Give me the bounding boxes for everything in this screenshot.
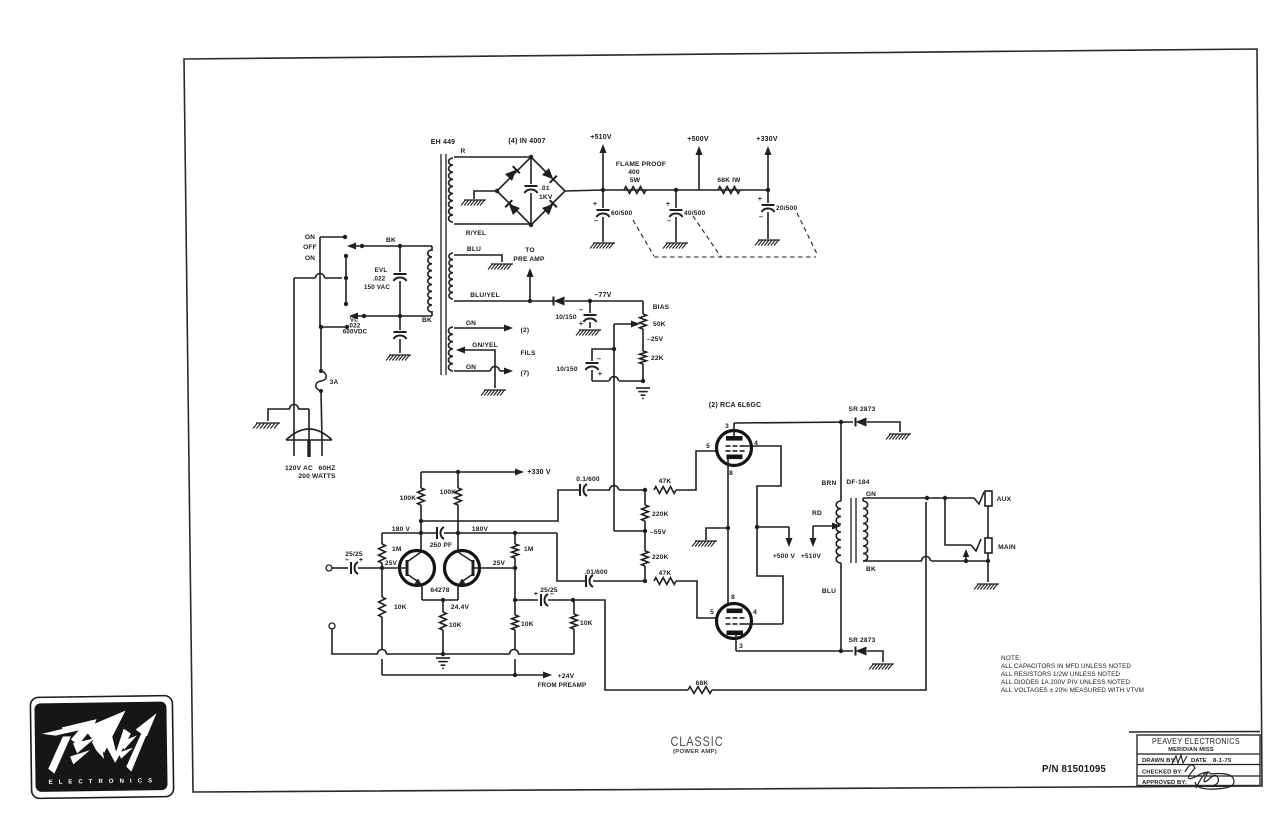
label DF-184 bbox=[846, 479, 869, 486]
label BRN bbox=[822, 480, 837, 487]
svg-text:(2): (2) bbox=[521, 327, 530, 334]
svg-text:1KV: 1KV bbox=[539, 194, 553, 201]
wire: R/YEL winding to bridge bottom bbox=[454, 223, 531, 225]
diode D3 (bridge bottom-left) bbox=[505, 200, 520, 215]
tube V2 cathode bbox=[727, 609, 743, 614]
jack MAIN contact bbox=[971, 539, 981, 551]
svg-text:.022: .022 bbox=[373, 276, 386, 283]
wire: RD center tap bbox=[813, 523, 841, 530]
wire: Q2 base down bbox=[513, 568, 517, 602]
svg-text:GN/YEL: GN/YEL bbox=[472, 342, 498, 349]
svg-text:–25V: –25V bbox=[647, 336, 664, 343]
pin 4 label (V2) bbox=[753, 609, 757, 616]
svg-text:SR 2873: SR 2873 bbox=[848, 406, 875, 413]
label ON (top) bbox=[305, 234, 315, 241]
resistor 10K (emitter) bbox=[440, 600, 447, 656]
svg-text:3A: 3A bbox=[330, 379, 339, 386]
title block row DRAWN BY bbox=[1142, 755, 1232, 764]
svg-text:MERIDIAN MISS: MERIDIAN MISS bbox=[1168, 747, 1214, 753]
svg-text:+: + bbox=[579, 319, 584, 328]
svg-text:ALL DIODES 1A 200V PIV UNLES: ALL DIODES 1A 200V PIV UNLESS NOTED bbox=[1001, 679, 1130, 686]
resistor 1M (Q1) bbox=[379, 533, 386, 568]
label FILS bbox=[520, 350, 535, 357]
diode SR2873 (lower) bbox=[856, 647, 867, 656]
wire: jack sleeve to ground bbox=[987, 553, 989, 582]
svg-text:+: + bbox=[598, 369, 603, 378]
svg-text:+: + bbox=[534, 591, 538, 598]
wire: 10K1 to +24V rail bbox=[381, 617, 383, 675]
label +330V (driver) bbox=[527, 469, 551, 476]
svg-text:DRAWN BY:: DRAWN BY: bbox=[1142, 758, 1176, 764]
label (4) IN 4007 bbox=[508, 138, 545, 145]
wire: Q2 collector to .01 cap bbox=[515, 533, 585, 581]
svg-text:EVL: EVL bbox=[375, 267, 388, 274]
label SR 2873 (upper) bbox=[848, 406, 875, 413]
jack MAIN body bbox=[985, 538, 992, 553]
svg-text:TO: TO bbox=[525, 247, 534, 254]
svg-text:4: 4 bbox=[753, 609, 757, 616]
pin 5 label (V2) bbox=[710, 609, 714, 616]
label (7) bbox=[521, 370, 530, 377]
diode D4 (bridge bottom-right) bbox=[542, 200, 557, 215]
speaker phasing arrow bbox=[963, 549, 970, 561]
svg-text:–: – bbox=[594, 216, 598, 225]
svg-text:+330 V: +330 V bbox=[527, 469, 551, 476]
resistor FLAME PROOF 400 5W bbox=[624, 187, 646, 194]
svg-text:60HZ: 60HZ bbox=[319, 465, 336, 472]
wire: cathode bus bbox=[726, 459, 730, 603]
svg-text:100K: 100K bbox=[440, 489, 457, 496]
svg-text:8: 8 bbox=[731, 594, 735, 601]
label GN (bottom) bbox=[466, 364, 476, 371]
label 10/150 (2) bbox=[556, 354, 602, 378]
capacitor C 10/150 (bias filter 1) bbox=[584, 301, 597, 328]
label BLU bbox=[467, 246, 481, 253]
wire: cathode to ground bbox=[706, 528, 728, 540]
input jack tip terminal bbox=[326, 565, 348, 571]
wire: AUX to MAIN bbox=[987, 506, 989, 538]
svg-text:ALL VOLTAGES ± 20% MEASURED W: ALL VOLTAGES ± 20% MEASURED WITH VTVM bbox=[1001, 687, 1144, 694]
svg-text:DF-184: DF-184 bbox=[846, 479, 869, 486]
Peavey Electronics logo bbox=[30, 696, 173, 799]
svg-text:NOTE:: NOTE: bbox=[1001, 655, 1022, 662]
label 180V (left) bbox=[392, 526, 411, 533]
wire: B+ bus bbox=[601, 188, 770, 192]
svg-text:FROM PREAMP: FROM PREAMP bbox=[538, 682, 587, 689]
wire: bridge + to B+ bus bbox=[565, 190, 603, 191]
wire: V2 pin4 screen bbox=[745, 623, 784, 625]
ground (lower SR2873) bbox=[869, 664, 894, 670]
svg-text:10K: 10K bbox=[449, 622, 462, 629]
label 10K (Q2 base) bbox=[521, 621, 534, 628]
label 25V (right) bbox=[493, 560, 506, 567]
capacitor C 20/500 bbox=[762, 190, 775, 239]
transformer T2 DF-184 primary bbox=[836, 422, 841, 651]
resistor 68K 1W bbox=[718, 187, 740, 194]
svg-text:MAIN: MAIN bbox=[998, 544, 1016, 551]
wire: secondary hot bbox=[863, 496, 974, 501]
svg-text:47K: 47K bbox=[659, 570, 672, 577]
diode bridge (4) IN4007 outline bbox=[495, 155, 565, 227]
svg-text:8-1-75: 8-1-75 bbox=[1213, 758, 1232, 764]
label SR 2873 (lower) bbox=[848, 637, 875, 644]
svg-text:DATE: DATE bbox=[1191, 758, 1207, 764]
capacitor VL .022 600VDC bbox=[394, 316, 407, 353]
svg-text:PRE AMP: PRE AMP bbox=[513, 256, 545, 263]
resistor 47K (lower grid) bbox=[654, 578, 676, 585]
wire: R winding to bridge top bbox=[454, 156, 531, 158]
label EH 449 bbox=[431, 139, 456, 146]
transformer T2 core bbox=[851, 498, 856, 563]
AC plug hot prong bbox=[293, 440, 295, 456]
svg-text:BK: BK bbox=[386, 237, 396, 244]
node +500V rail bbox=[687, 136, 709, 190]
label 50K bbox=[653, 321, 666, 328]
label AUX bbox=[997, 496, 1012, 503]
ground (40/500) bbox=[663, 243, 688, 249]
label 1M (1) bbox=[392, 546, 402, 553]
transformer T1 FILS winding bbox=[448, 327, 453, 371]
svg-text:FILS: FILS bbox=[520, 350, 535, 357]
svg-text:+: + bbox=[593, 199, 598, 208]
pin 5 label (V1) bbox=[706, 443, 710, 450]
AC plug dome bbox=[286, 429, 332, 440]
svg-text:+510V: +510V bbox=[590, 134, 612, 141]
wire: rail A to 10K4 bbox=[573, 629, 575, 654]
capacitor .01/600 bbox=[586, 575, 593, 587]
node +500V (screens) bbox=[757, 527, 796, 560]
svg-text:RD: RD bbox=[812, 510, 822, 517]
ground (20/500) bbox=[755, 240, 780, 246]
ground (cathodes) bbox=[692, 541, 717, 547]
label R/YEL bbox=[466, 230, 486, 237]
label BK (OT) bbox=[866, 566, 876, 573]
wire: +24V rail B bbox=[382, 672, 552, 679]
label VL bbox=[343, 317, 368, 336]
wire: BK line top with arrow bbox=[347, 243, 432, 252]
wire: +330V rail (driver) bbox=[421, 469, 524, 476]
label BK (top) bbox=[386, 237, 396, 244]
svg-text:600VDC: 600VDC bbox=[343, 329, 368, 336]
label .01 1KV bbox=[539, 185, 553, 201]
svg-text:64278: 64278 bbox=[430, 587, 449, 594]
label 0.1/600 bbox=[576, 476, 600, 483]
capacitor C 40/500 bbox=[670, 190, 683, 242]
resistor 220K (upper) bbox=[642, 490, 649, 531]
label FLAME PROOF 400 5W bbox=[616, 161, 666, 184]
svg-text:BLU: BLU bbox=[467, 246, 481, 253]
svg-text:–: – bbox=[579, 305, 583, 314]
svg-text:1M: 1M bbox=[392, 546, 402, 553]
label FROM PREAMP bbox=[538, 682, 587, 689]
transformer T1 core bbox=[441, 154, 446, 375]
svg-text:5: 5 bbox=[710, 609, 714, 616]
svg-text:25V: 25V bbox=[493, 560, 506, 567]
svg-text:FLAME PROOF: FLAME PROOF bbox=[616, 161, 666, 168]
ground (bridge) bbox=[461, 200, 486, 206]
label 47K (lower) bbox=[659, 570, 672, 577]
svg-text:ALL CAPACITORS IN MFD UNLESS N: ALL CAPACITORS IN MFD UNLESS NOTED bbox=[1001, 663, 1131, 670]
ground (output jacks) bbox=[974, 584, 999, 590]
diode D5 (bias rectifier) bbox=[554, 297, 565, 306]
node +510V rail bbox=[590, 134, 612, 190]
svg-text:10/150: 10/150 bbox=[555, 314, 577, 321]
transformer T1 6.3V BLU winding bbox=[449, 253, 453, 299]
svg-text:BRN: BRN bbox=[822, 480, 837, 487]
diode SR2873 (upper) bbox=[856, 418, 867, 427]
wire: FILS center tap to ground bbox=[456, 347, 495, 389]
wire: 10K3 through rail A bbox=[513, 630, 517, 677]
capacitor 250PF bbox=[437, 527, 458, 539]
svg-text:AUX: AUX bbox=[997, 496, 1012, 503]
wire: V2 plate line bbox=[736, 649, 853, 653]
svg-text:+510V: +510V bbox=[801, 553, 822, 560]
svg-text:68K: 68K bbox=[696, 680, 709, 687]
wire: ground rail A bbox=[378, 650, 575, 655]
svg-text:+: + bbox=[666, 199, 671, 208]
diode D2 (bridge top-right) bbox=[542, 168, 557, 183]
svg-text:200 WATTS: 200 WATTS bbox=[298, 473, 336, 480]
wire: bridge negative to ground bbox=[474, 191, 497, 199]
label 68K (feedback) bbox=[696, 680, 709, 687]
transformer T1 primary winding bbox=[428, 250, 432, 312]
label 250 PF bbox=[430, 542, 452, 549]
label BK (bottom) bbox=[422, 317, 432, 324]
resistor 68K (feedback) bbox=[688, 687, 712, 694]
wire: 47K to V1 grid bbox=[676, 451, 716, 490]
svg-text:+500 V: +500 V bbox=[773, 553, 796, 560]
label 64278 bbox=[430, 587, 449, 594]
svg-text:25V: 25V bbox=[385, 560, 398, 567]
label 68K IW bbox=[717, 177, 741, 184]
AC plug neutral-ground prong (thick) bbox=[308, 409, 310, 457]
label 100K (2) bbox=[440, 489, 457, 496]
svg-text:0.1/600: 0.1/600 bbox=[576, 476, 600, 483]
transistor Q2 64278 bbox=[445, 551, 480, 586]
AC plug line prong bbox=[321, 440, 323, 456]
label -77V bbox=[594, 292, 611, 299]
wire: -77V node bbox=[565, 299, 643, 303]
svg-text:180V: 180V bbox=[472, 526, 489, 533]
wire: 22K bottom node bbox=[641, 364, 645, 383]
svg-text:–: – bbox=[597, 354, 601, 363]
wire: Q1 base bbox=[380, 566, 406, 570]
wire: secondary cold bbox=[863, 557, 990, 564]
label 40/500 bbox=[666, 199, 706, 225]
svg-text:GN: GN bbox=[466, 320, 476, 327]
svg-text:BIAS: BIAS bbox=[653, 304, 670, 311]
svg-text:400: 400 bbox=[628, 169, 640, 176]
label OFF bbox=[303, 244, 317, 251]
label .01/600 bbox=[584, 569, 608, 576]
svg-text:50K: 50K bbox=[653, 321, 666, 328]
wire: upper diode to ground bbox=[867, 422, 900, 432]
sheet border frame bbox=[184, 49, 1262, 792]
svg-text:CHECKED BY:: CHECKED BY: bbox=[1142, 770, 1183, 776]
title block row APPROVED BY bbox=[1142, 772, 1218, 788]
svg-text:40/500: 40/500 bbox=[684, 210, 706, 217]
label 3A bbox=[330, 379, 339, 386]
wire: MAIN tip feed bbox=[945, 498, 971, 545]
wire: common emitter rail bbox=[422, 598, 458, 602]
svg-text:20/500: 20/500 bbox=[776, 205, 798, 212]
svg-text:47K: 47K bbox=[659, 478, 672, 485]
tube V2 plate bbox=[727, 631, 744, 652]
svg-text:BLU/YEL: BLU/YEL bbox=[470, 292, 500, 299]
svg-text:5: 5 bbox=[706, 443, 710, 450]
title block frame bbox=[1129, 732, 1260, 786]
tube V1 cathode bbox=[727, 455, 743, 460]
title block text PEAVEY ELECTRONICS bbox=[1152, 737, 1240, 753]
label ON (bottom) bbox=[305, 255, 315, 262]
label 25V (left) bbox=[385, 560, 398, 567]
switch S1 bottom contact bbox=[319, 325, 349, 329]
ground (BLU tap) bbox=[488, 264, 513, 270]
wire: .01 cap to 47K node bbox=[593, 579, 647, 583]
svg-text:100K: 100K bbox=[400, 495, 417, 502]
svg-text:BK: BK bbox=[422, 317, 432, 324]
dashed can outline (multi-section cap) bbox=[633, 213, 818, 257]
svg-text:–: – bbox=[550, 591, 554, 598]
note block bbox=[1001, 655, 1144, 694]
label 100K (1) bbox=[400, 495, 417, 502]
switch S1 right pole bbox=[344, 254, 348, 306]
label 47K (upper) bbox=[659, 478, 672, 485]
ground (upper SR2873) bbox=[886, 434, 911, 440]
node +510V (OT center tap) bbox=[801, 526, 822, 560]
tube V1 plate bbox=[726, 423, 743, 441]
label -55V bbox=[650, 529, 667, 536]
svg-text:–: – bbox=[667, 216, 671, 225]
wire: AC line to switch bbox=[294, 274, 342, 279]
svg-text:180 V: 180 V bbox=[392, 526, 411, 533]
pin 3 label (V2) bbox=[739, 643, 743, 650]
capacitor C 60/500 bbox=[597, 190, 610, 242]
ground (60/500) bbox=[590, 243, 615, 249]
svg-text:10K: 10K bbox=[394, 604, 407, 611]
wire: 180V line left bbox=[382, 532, 436, 534]
resistor 47K (upper grid) bbox=[654, 487, 676, 494]
svg-text:APPROVED BY:: APPROVED BY: bbox=[1142, 780, 1187, 786]
svg-text:P/N 81501095: P/N 81501095 bbox=[1042, 763, 1106, 775]
wire: plug hot to switch line bbox=[293, 278, 295, 440]
tube V1 grids bbox=[726, 446, 745, 451]
resistor 10K (feedback leg) bbox=[571, 600, 578, 629]
fuse F1 3A bbox=[316, 369, 327, 393]
wire: V1 pin4 screen bbox=[745, 446, 782, 527]
label BIAS bbox=[653, 304, 670, 311]
ground (VL cap) bbox=[386, 355, 411, 361]
svg-text:GN: GN bbox=[466, 364, 476, 371]
capacitor 25/25 (input) bbox=[351, 562, 382, 574]
label MAIN bbox=[998, 544, 1016, 551]
svg-text:68K IW: 68K IW bbox=[717, 177, 741, 184]
svg-text:(2) RCA 6L6GC: (2) RCA 6L6GC bbox=[709, 402, 762, 409]
svg-text:250 PF: 250 PF bbox=[430, 542, 452, 549]
transformer T2 secondary bbox=[863, 501, 868, 561]
svg-text:+24V: +24V bbox=[558, 673, 575, 680]
wire: bias wiper line down bbox=[612, 324, 616, 531]
resistor 10K (Q1 base) bbox=[379, 568, 386, 617]
label 10K (emitter) bbox=[449, 622, 462, 629]
wire: BK line bottom with arrow bbox=[349, 311, 432, 320]
ground (bias network) bbox=[636, 388, 650, 398]
ground (emitter chassis) bbox=[436, 658, 450, 668]
svg-text:OFF: OFF bbox=[303, 244, 317, 251]
label 60/500 bbox=[593, 199, 633, 225]
tube V2 grids bbox=[726, 618, 745, 624]
resistor 1M (Q2) bbox=[512, 533, 519, 568]
switch S1 ON/OFF pole bbox=[319, 237, 321, 327]
wire: plug safety ground jumper bbox=[268, 405, 309, 421]
wire: Q1 emitter bbox=[421, 585, 423, 600]
jack AUX body bbox=[985, 491, 992, 506]
label 22K bbox=[651, 355, 664, 362]
svg-text:60/500: 60/500 bbox=[611, 210, 633, 217]
transformer T1 HV secondary R winding bbox=[449, 158, 453, 222]
label 10K (feedback) bbox=[580, 620, 593, 627]
svg-text:BK: BK bbox=[866, 566, 876, 573]
pin 3 label (V1) bbox=[725, 423, 729, 430]
label +24V bbox=[558, 673, 575, 680]
pin 8 label (V2) bbox=[731, 594, 735, 601]
capacitor 25/25 (feedback) bbox=[515, 594, 575, 606]
label 20/500 bbox=[758, 194, 798, 221]
svg-text:.01: .01 bbox=[540, 185, 550, 192]
svg-text:8: 8 bbox=[729, 470, 733, 477]
tube V1 6L6GC envelope bbox=[717, 431, 752, 466]
potentiometer BIAS 50K bbox=[614, 314, 646, 329]
label GN (OT) bbox=[866, 491, 876, 498]
resistor 100K (Q2 load) bbox=[455, 472, 462, 533]
wire: feedback line bbox=[573, 600, 688, 690]
label BLU/YEL bbox=[470, 292, 500, 299]
wire: BLU/YEL to bias diode bbox=[454, 299, 553, 303]
jack AUX contact bbox=[974, 492, 984, 504]
svg-text:10K: 10K bbox=[521, 621, 534, 628]
svg-text:(POWER AMP): (POWER AMP) bbox=[673, 749, 717, 755]
label 120VAC 60HZ bbox=[285, 465, 335, 472]
wire: switch pole to fuse bbox=[320, 327, 322, 371]
resistor 22K bbox=[640, 351, 647, 364]
svg-text:R/YEL: R/YEL bbox=[466, 230, 486, 237]
svg-text:ALL RESISTORS 1/2W UNLESS NOT: ALL RESISTORS 1/2W UNLESS NOTED bbox=[1001, 671, 1120, 678]
svg-text:5W: 5W bbox=[630, 177, 641, 184]
label GN (top) bbox=[466, 320, 476, 327]
svg-text:(4) IN 4007: (4) IN 4007 bbox=[508, 138, 545, 145]
wire: Q2 emitter bbox=[457, 585, 459, 600]
svg-text:GN: GN bbox=[866, 491, 876, 498]
diode D1 (bridge top-left) bbox=[505, 166, 520, 181]
wire: Q1 collector node bbox=[419, 521, 423, 552]
label 220K (upper) bbox=[652, 511, 669, 518]
label EVL bbox=[364, 267, 390, 291]
input jack sleeve terminal bbox=[329, 623, 335, 629]
svg-text:ON: ON bbox=[305, 255, 315, 262]
label 220K (lower) bbox=[652, 554, 669, 561]
svg-text:–: – bbox=[345, 557, 349, 564]
label R bbox=[461, 148, 466, 155]
svg-text:CLASSIC: CLASSIC bbox=[671, 733, 724, 749]
svg-text:EH 449: EH 449 bbox=[431, 139, 456, 146]
node -55V bbox=[614, 529, 647, 533]
capacitor C 10/150 (bias filter 2) bbox=[586, 349, 644, 381]
label 25/25 (input) bbox=[345, 551, 363, 564]
capacitor 0.1/600 bbox=[580, 484, 587, 496]
wire: V1 plate line bbox=[734, 420, 853, 424]
wire: 47K to V2 grid bbox=[676, 581, 717, 618]
svg-text:150 VAC: 150 VAC bbox=[364, 284, 390, 291]
